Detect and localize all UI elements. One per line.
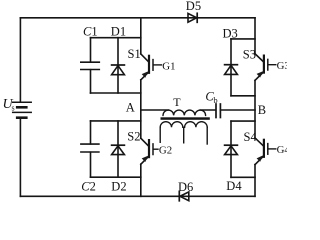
transformer secondary lead center [183, 127, 185, 143]
wire top rail [20, 17, 255, 19]
diode D5 [188, 13, 197, 22]
svg-text:S4: S4 [244, 130, 258, 144]
svg-text:C2: C2 [81, 180, 96, 194]
svg-text:G1: G1 [162, 60, 175, 72]
battery long plate 1 [13, 101, 32, 103]
wire left leg top (rail to S1 collector) [140, 18, 142, 54]
wire box4 bottom edge [231, 176, 255, 178]
battery short plate 2 [17, 116, 26, 119]
wire box2 top edge [91, 120, 141, 122]
wire box1 top edge [91, 37, 141, 39]
diode D1 branch wire [117, 38, 119, 93]
svg-text:D4: D4 [226, 179, 242, 193]
wire transformer primary to Cb [200, 109, 215, 111]
diode D3 [225, 65, 238, 75]
wire box4 top edge [231, 120, 255, 122]
transformer secondary lead right [206, 127, 208, 144]
wire box3 top edge [231, 38, 255, 40]
wire right leg middle (S3 emitter to node B and S4 collector) [254, 80, 256, 137]
wire left leg middle (S1 emitter to node A and S2 collector) [140, 80, 142, 138]
battery Us [13, 102, 32, 118]
capacitor C2 [81, 144, 99, 152]
diode D4 branch wire [230, 121, 232, 177]
transistor S2 [141, 138, 158, 164]
svg-text:G4: G4 [277, 144, 287, 156]
diode D1 [112, 65, 125, 75]
wire Cb to node B [220, 109, 255, 111]
capacitor C1 branch lower wire [90, 70, 92, 93]
svg-text:S1: S1 [128, 47, 141, 61]
svg-text:A: A [126, 100, 135, 114]
svg-text:D5: D5 [186, 0, 201, 13]
svg-text:B: B [258, 103, 266, 117]
svg-text:T: T [173, 95, 181, 109]
wire left vertical (source branch, lower) [19, 118, 21, 197]
wire right leg bottom (S4 emitter to bottom rail) [254, 165, 256, 197]
transistor S1 [141, 54, 162, 80]
wire left vertical (source branch, upper) [19, 18, 21, 102]
capacitor C2 branch lower wire [90, 152, 92, 177]
transformer secondary lead left [159, 127, 161, 142]
wire left leg bottom (S2 emitter to bottom rail) [140, 164, 142, 196]
capacitor C1 branch upper wire [90, 38, 92, 62]
capacitor C2 branch upper wire [90, 121, 92, 144]
wire bottom rail [20, 195, 255, 197]
svg-text:G3: G3 [277, 60, 287, 72]
diode D2 branch wire [117, 121, 119, 177]
diode D2 [112, 145, 125, 154]
wire right leg top (rail corner to S3 collector) [254, 18, 256, 54]
svg-text:G2: G2 [159, 144, 172, 156]
capacitor Cb [216, 104, 220, 118]
transistor S4 [255, 138, 276, 165]
wire box3 bottom edge [231, 95, 255, 97]
svg-text:C1: C1 [83, 25, 98, 39]
battery short plate 1 [17, 106, 26, 109]
transformer T secondary winding left [160, 122, 183, 128]
transistor S3 [255, 54, 276, 81]
svg-text:D1: D1 [111, 25, 126, 39]
svg-text:s: s [12, 103, 15, 112]
wire node A to transformer [141, 109, 169, 111]
svg-text:D6: D6 [178, 180, 193, 194]
svg-text:S2: S2 [127, 129, 140, 143]
transformer T primary winding [163, 110, 206, 115]
diode D6 [179, 192, 189, 201]
transformer T secondary winding right [185, 122, 208, 128]
svg-text:S3: S3 [243, 47, 256, 61]
svg-text:D3: D3 [223, 27, 238, 41]
wire box1 bottom edge [91, 92, 141, 94]
svg-text:D2: D2 [111, 180, 126, 194]
wire box2 bottom edge [91, 176, 141, 178]
transformer core [161, 117, 210, 120]
svg-text:b: b [213, 95, 217, 105]
diode D3 branch wire [230, 39, 232, 96]
capacitor C1 [81, 62, 100, 69]
battery long plate 2 [13, 111, 32, 113]
diode D4 [225, 145, 238, 154]
